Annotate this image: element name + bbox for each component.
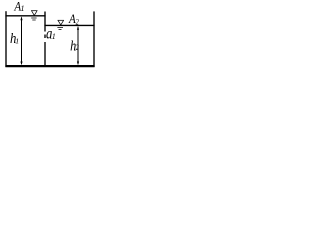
dimension line h1 with arrowheads xyxy=(20,16,22,65)
water surface symbol right (nabla) xyxy=(57,20,64,29)
water surface symbol left (nabla) xyxy=(31,11,38,20)
dimension line h2 with arrowheads xyxy=(77,26,79,65)
svg-text:2: 2 xyxy=(76,43,80,52)
left water surface line xyxy=(5,15,45,17)
svg-text:1: 1 xyxy=(52,32,56,41)
svg-text:1: 1 xyxy=(21,4,25,13)
middle wall orifice dash xyxy=(44,35,46,39)
right tank wall xyxy=(93,11,95,67)
tank bottom xyxy=(5,65,94,67)
left tank wall xyxy=(5,11,7,67)
right water surface line xyxy=(44,24,94,26)
svg-text:2: 2 xyxy=(76,18,80,27)
svg-text:1: 1 xyxy=(15,37,19,46)
middle wall (solid lower) xyxy=(44,42,46,67)
middle dividing wall (solid upper) xyxy=(44,12,46,32)
